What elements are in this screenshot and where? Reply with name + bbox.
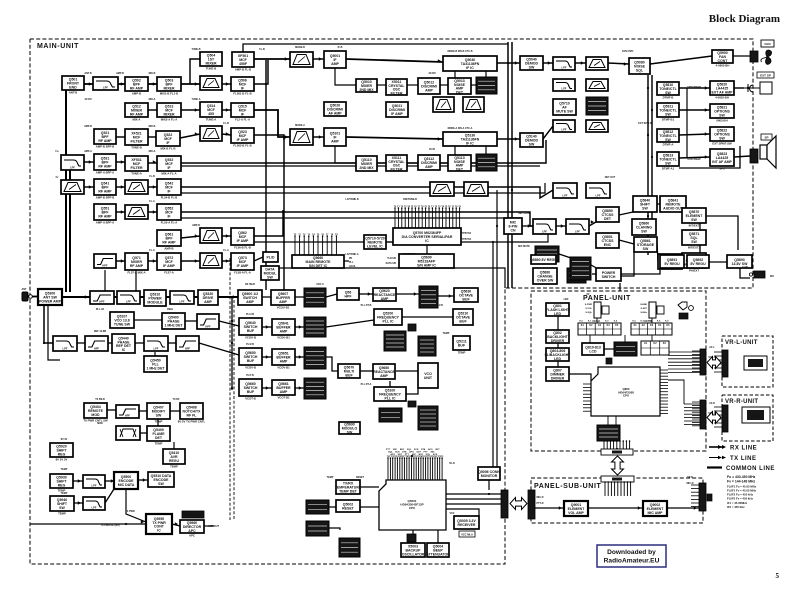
wire panelsub chain3 — [667, 507, 699, 509]
wire rowC 3 — [180, 134, 200, 138]
wire top route 2 — [284, 125, 460, 137]
svg-text:AMP: AMP — [381, 297, 389, 301]
svg-text:OVER SW: OVER SW — [537, 279, 554, 283]
svg-text:S-BND: S-BND — [640, 304, 647, 306]
wire rowC 4 — [222, 134, 231, 135]
wire ant row chain2 — [114, 296, 117, 298]
wire tx row4 — [140, 432, 147, 434]
svg-text:K-8: K-8 — [657, 321, 661, 323]
block s2 b2 — [386, 155, 407, 172]
svg-text:EXT SP/D-B: EXT SP/D-B — [638, 122, 652, 125]
svg-text:IF AMP: IF AMP — [163, 264, 175, 268]
small dark eeprom — [407, 534, 416, 542]
wire pll left row2 1 — [77, 342, 85, 344]
wire right col conn 2 — [679, 109, 710, 111]
svg-text:SW: SW — [719, 137, 725, 141]
filter bpf tx — [116, 426, 140, 440]
wire audio long to panel — [706, 216, 738, 250]
svg-text:FL-A: FL-A — [223, 249, 229, 252]
block 3p3 receiver — [454, 516, 479, 529]
block aux b — [50, 474, 73, 492]
svg-text:2ND MIX: 2ND MIX — [359, 166, 374, 170]
block octave r2 — [453, 309, 473, 325]
svg-text:LPF: LPF — [575, 230, 580, 234]
block rf row5a — [94, 179, 116, 199]
arrow panel to sub — [612, 456, 624, 475]
wire panel bus a2 — [668, 358, 700, 360]
block s2 trap1 — [430, 182, 454, 196]
svg-text:TUNE-B: TUNE-B — [206, 66, 217, 70]
block af2 a — [633, 196, 657, 212]
svg-text:MIC-D: MIC-D — [537, 496, 544, 499]
block RF AMP row2 — [125, 103, 148, 121]
wire mid long 5 — [278, 268, 505, 288]
svg-text:DTMF-B1: DTMF-B1 — [662, 117, 675, 121]
block pw4 — [727, 255, 752, 268]
block crystal filter top A — [232, 52, 254, 71]
wire right vert a — [647, 75, 649, 255]
svg-text:AF AMP: AF AMP — [328, 112, 342, 116]
wire rowB 2 — [181, 109, 200, 111]
svg-text:PLL: PLL — [349, 262, 354, 264]
svg-text:Fv = 144-148 MHz: Fv = 144-148 MHz — [727, 480, 755, 484]
svg-text:COMMON LINE: COMMON LINE — [726, 466, 775, 472]
block octave r1 — [454, 288, 478, 302]
connector comb right — [394, 205, 462, 228]
block diode mla — [180, 520, 204, 537]
svg-text:SQL: SQL — [426, 454, 431, 456]
svg-text:MIX-A: MIX-A — [149, 150, 156, 153]
svg-text:VCOV-B: VCOV-B — [245, 365, 256, 369]
svg-text:1 MHz DET: 1 MHz DET — [146, 367, 165, 371]
wire panel key stub 2 — [624, 335, 626, 342]
wire strip1 subs2 — [377, 84, 386, 86]
filter hpf tx — [116, 405, 139, 418]
vco dark c3 — [418, 406, 438, 430]
wire panelsub chain2 — [588, 507, 643, 509]
svg-text:BUF: BUF — [458, 343, 466, 347]
block vco buf r3a — [239, 348, 262, 369]
svg-text:4-0603-BH: 4-0603-BH — [716, 63, 730, 67]
filter lpf aux2 — [83, 497, 105, 510]
svg-text:INT AF AMP: INT AF AMP — [712, 160, 732, 164]
wire strip1 subs3 — [407, 84, 418, 86]
svg-text:MIC-D: MIC-D — [687, 482, 694, 485]
wire rowB 3 — [222, 109, 231, 111]
svg-text:AMP: AMP — [331, 140, 339, 144]
svg-text:PH/EXT: PH/EXT — [689, 268, 699, 272]
svg-text:LPF: LPF — [562, 128, 567, 132]
wire panel lcd lines — [604, 348, 614, 350]
dark s1 b5 — [476, 77, 497, 94]
panel small sq — [606, 358, 612, 364]
svg-text:FILTER: FILTER — [391, 168, 403, 172]
wire panel bus a3 — [668, 361, 700, 363]
VR-L-UNIT dashed border — [722, 336, 773, 387]
svg-text:DRIVER: DRIVER — [551, 377, 565, 381]
block 1st mixer top A — [200, 52, 222, 70]
wire panel left to cpu — [569, 374, 591, 381]
svg-text:PL/D: PL/D — [267, 255, 275, 259]
wire rowE 3 — [148, 186, 157, 188]
wire pw chain — [684, 261, 687, 263]
block s2 trap2 — [464, 182, 488, 196]
wire left bus vert b — [283, 137, 285, 290]
legend COMMON LINE — [707, 466, 775, 472]
ic S N det 2 wide — [399, 254, 454, 268]
svg-text:TUNE-A: TUNE-A — [206, 117, 217, 121]
svg-text:AF-R: AF-R — [709, 402, 715, 405]
arrow to VR-R — [707, 412, 721, 424]
svg-text:8V REGU: 8V REGU — [690, 262, 706, 266]
svg-text:T2: T2 — [303, 234, 306, 236]
svg-text:455: 455 — [208, 112, 214, 116]
svg-text:IF IC: IF IC — [466, 142, 474, 146]
DC IN connector — [749, 271, 775, 278]
wire rowH 4 — [222, 260, 231, 262]
svg-text:T5: T5 — [317, 234, 320, 236]
svg-text:SW: SW — [642, 207, 648, 211]
svg-text:PLL IC: PLL IC — [382, 320, 393, 324]
wire pll center 2 — [360, 370, 373, 372]
wire panel sw stub 1 — [596, 318, 598, 323]
svg-text:TUNE-A: TUNE-A — [191, 98, 200, 101]
svg-text:PTT-D: PTT-D — [537, 502, 544, 505]
svg-text:SW: SW — [267, 276, 273, 280]
wire mid vert d — [492, 242, 494, 467]
wire dashed control b — [233, 300, 235, 520]
block rf row4a — [94, 154, 116, 174]
wire mid long pair 2 — [181, 183, 545, 193]
block reset — [336, 500, 360, 512]
block BPF row2 — [157, 103, 181, 121]
svg-text:END: END — [69, 86, 77, 90]
svg-text:MIC DATA: MIC DATA — [118, 483, 135, 487]
filter LPF row4 — [61, 155, 84, 170]
svg-text:OSCILLATOR: OSCILLATOR — [402, 553, 425, 557]
svg-text:LPF: LPF — [92, 484, 97, 488]
panelsub comb — [604, 481, 631, 496]
svg-text:MODE-A DIS-A CTC-A: MODE-A DIS-A CTC-A — [448, 127, 473, 130]
block backup — [401, 543, 425, 557]
block panel lcd con — [545, 348, 572, 361]
svg-text:LPF: LPF — [126, 300, 131, 304]
wire ant row chain4 — [166, 296, 170, 298]
svg-text:MIX1-B FL1-B: MIX1-B FL1-B — [160, 91, 178, 95]
svg-text:PTT: PTT — [405, 454, 410, 456]
svg-text:VCC MLA: VCC MLA — [461, 533, 473, 537]
svg-text:44.545: 44.545 — [428, 72, 436, 75]
svg-text:1MHz: 1MHz — [167, 308, 174, 311]
filter lpf aux — [83, 475, 105, 488]
vr-r pot — [742, 407, 770, 423]
filter lpf rc5 — [553, 183, 577, 198]
svg-text:AMP-A BPF-A: AMP-A BPF-A — [96, 170, 114, 174]
block af3 a — [533, 268, 557, 284]
wire pll r1 3 — [326, 294, 337, 297]
svg-text:LO/TONE-B: LO/TONE-B — [345, 198, 358, 201]
wire pll left row2 2 — [108, 342, 112, 344]
block pllvco a — [110, 312, 134, 328]
panel key labels R — [632, 321, 669, 323]
svg-text:AMP-B: AMP-B — [84, 125, 92, 128]
panel right pins 1 — [692, 350, 700, 352]
block panelsub vol amp — [564, 501, 588, 516]
svg-text:EXT AF AMP: EXT AF AMP — [712, 91, 734, 95]
svg-text:LPF: LPF — [154, 347, 159, 351]
svg-text:LEVEL IC: LEVEL IC — [367, 245, 383, 249]
svg-text:LED: LED — [564, 298, 569, 301]
wire pll center 3 — [396, 370, 418, 372]
svg-text:Fv: Fv — [56, 176, 59, 179]
svg-text:RESET: RESET — [356, 476, 365, 479]
block pll 1mhz — [144, 356, 167, 372]
svg-text:MIX-A: MIX-A — [133, 117, 141, 121]
wire af mid 1 — [556, 225, 566, 227]
block rf row5c — [157, 179, 181, 199]
svg-text:IF AMP: IF AMP — [237, 138, 249, 142]
block reactance r1 — [373, 288, 396, 301]
svg-text:FILTER: FILTER — [391, 92, 403, 96]
svg-text:T7: T7 — [326, 234, 329, 236]
panel switch 1 — [594, 302, 609, 318]
svg-text:5C-D: 5C-D — [449, 462, 455, 465]
svg-text:T4: T4 — [312, 233, 315, 236]
wire panel bus c0 — [684, 403, 700, 405]
main cpu comb labels — [386, 448, 440, 456]
block TXRX SW — [144, 290, 166, 306]
panel RST box — [679, 313, 688, 319]
wire af mid 10 — [586, 262, 598, 269]
arrow main to panelsub — [510, 498, 527, 510]
wire strip2 a — [313, 136, 324, 138]
wire pll 1mhz — [154, 352, 156, 356]
svg-text:LPF: LPF — [92, 506, 97, 510]
downloaded-by box — [597, 545, 666, 567]
svg-text:MIXER: MIXER — [163, 113, 175, 117]
block s2 b4 — [448, 155, 471, 172]
svg-text:SW: SW — [691, 218, 697, 222]
vr-r pins — [714, 406, 722, 408]
wire rx vertical 1 — [62, 84, 66, 292]
block s1 b3 — [418, 78, 440, 94]
connector comb left — [294, 233, 339, 255]
dark q select — [306, 500, 329, 514]
block data sw — [632, 219, 656, 235]
svg-text:Downloaded by: Downloaded by — [607, 549, 656, 556]
svg-text:TUNE-B: TUNE-B — [191, 48, 200, 51]
wire strip2 d — [543, 126, 553, 139]
svg-text:Fu = 430-450 MHz: Fu = 430-450 MHz — [727, 475, 756, 479]
wire rowD 1 — [84, 161, 94, 163]
svg-text:IF-B: IF-B — [338, 46, 343, 49]
dark panel lcd driver — [614, 342, 637, 356]
svg-text:T0: T0 — [294, 234, 297, 236]
svg-text:LPF: LPF — [563, 194, 568, 198]
block attenuator — [426, 543, 450, 557]
panel cpu pins right — [660, 369, 668, 371]
svg-text:SW: SW — [529, 66, 535, 70]
wire aux row5 — [105, 489, 114, 503]
svg-text:MUTE SW: MUTE SW — [556, 110, 573, 114]
block buf small r2 — [453, 336, 470, 354]
svg-text:FL-B: FL-B — [223, 122, 229, 125]
svg-text:FL501-B FL-B: FL501-B FL-B — [233, 91, 251, 95]
wire pll r1 1 — [262, 296, 271, 298]
vco dark r2 — [304, 317, 326, 337]
svg-text:FAN CNTL: FAN CNTL — [622, 50, 634, 53]
wire vert left mid2 — [135, 270, 137, 291]
svg-text:EXT SPKR SW: EXT SPKR SW — [712, 141, 732, 145]
wire ant row chain5 — [194, 296, 198, 298]
wire long panel line — [619, 283, 621, 291]
svg-text:IC: IC — [157, 529, 161, 533]
block mid7b — [231, 228, 254, 249]
svg-text:SW: SW — [156, 414, 162, 418]
svg-text:TEMP: TEMP — [155, 441, 163, 445]
svg-text:VOL: VOL — [752, 414, 758, 418]
wire strip2 b — [346, 137, 443, 139]
svg-text:5V REGU: 5V REGU — [664, 262, 680, 266]
wire strip1 stub1 — [454, 71, 456, 78]
block audio col a4 — [657, 152, 679, 170]
filter HPF y336 e — [176, 336, 199, 351]
wire af mid 5 — [657, 203, 660, 205]
panel led cells — [641, 341, 669, 355]
svg-text:MONITOR: MONITOR — [481, 474, 498, 478]
svg-text:TUNE SW: TUNE SW — [114, 323, 131, 327]
svg-text:ANT-B: ANT-B — [84, 72, 92, 75]
ic decoder wide — [393, 228, 461, 245]
block tx chain b — [147, 403, 170, 423]
block ctcss1 — [596, 207, 619, 222]
wire pll r1 6 — [438, 295, 454, 297]
svg-text:VOL: VOL — [752, 362, 758, 366]
frequency table — [727, 475, 757, 509]
block rf row4b — [125, 156, 148, 175]
svg-text:SDT: SDT — [398, 454, 403, 456]
wire strip2 subs4 — [440, 162, 448, 164]
wire strip1 stub2 — [485, 71, 487, 77]
connector ANT — [22, 292, 32, 301]
svg-text:RF AMP: RF AMP — [130, 113, 144, 117]
svg-text:FL58-A FL-A: FL58-A FL-A — [234, 270, 251, 274]
filter lpf rc6 — [586, 183, 610, 198]
svg-text:S-VOL: S-VOL — [585, 308, 592, 310]
svg-text:SCK: SCK — [433, 454, 438, 456]
svg-text:S/N DET IC: S/N DET IC — [309, 264, 328, 268]
wire pll r1 5 — [396, 293, 419, 295]
block aux d — [50, 496, 74, 515]
svg-text:455F: 455F — [239, 62, 248, 66]
block DATA MODUL — [261, 266, 279, 280]
svg-text:PL/U-B: PL/U-B — [246, 313, 254, 316]
wire center vert pair a — [507, 42, 509, 288]
block RF AMP Fu — [125, 77, 148, 95]
svg-text:S/N AMP IC: S/N AMP IC — [417, 264, 436, 268]
wire pll r3 1 — [262, 356, 272, 358]
svg-text:TX LINE: TX LINE — [730, 456, 757, 462]
block s2 b1 — [356, 156, 377, 171]
wire pll left row2 4 — [168, 342, 176, 344]
svg-text:LO/TONE-A: LO/TONE-A — [345, 253, 358, 256]
wire cpu bottom2 — [437, 530, 439, 543]
svg-text:LPF: LPF — [562, 66, 567, 70]
block af2 b — [660, 196, 686, 212]
block tx chain d — [147, 426, 170, 445]
svg-text:POWER AMP: POWER AMP — [39, 300, 62, 304]
block s1 b4 — [448, 78, 471, 95]
wire center vert pair b — [511, 42, 513, 288]
phone jack symbol — [744, 82, 772, 94]
block panel b2 — [546, 330, 569, 343]
svg-text:SP-D: SP-D — [687, 476, 693, 479]
block rf row3b — [125, 129, 148, 149]
block af2 c — [634, 237, 657, 252]
vr-l connector bar — [722, 350, 728, 377]
svg-text:AMP: AMP — [380, 374, 388, 378]
svg-text:AMP-B BPF-B: AMP-B BPF-B — [96, 195, 115, 199]
filter HPF ant row — [90, 291, 114, 304]
svg-text:MIX-B: MIX-B — [149, 125, 156, 128]
svg-text:AMP: AMP — [425, 89, 433, 93]
svg-text:VCOT-B1: VCOT-B1 — [277, 395, 290, 399]
amp mid7 — [200, 228, 222, 243]
wire cpu right bus3 — [446, 503, 501, 505]
svg-text:MIC: MIC — [412, 454, 416, 456]
wire ant row chain — [62, 296, 90, 298]
wire pll left 3 — [219, 321, 239, 326]
block G1 RX RF unit — [62, 76, 84, 94]
wire rowD long — [181, 140, 546, 163]
svg-text:13.8V: 13.8V — [742, 266, 749, 269]
block pw3 — [687, 255, 709, 268]
svg-text:AUDIO OUT: AUDIO OUT — [663, 207, 684, 211]
wire dc feed — [740, 262, 752, 278]
svg-text:VCOU-B: VCOU-B — [245, 335, 256, 339]
wire pw chain2 — [709, 261, 727, 263]
svg-text:K-2: K-2 — [597, 321, 601, 323]
wire pll center 4 — [389, 381, 391, 387]
wire aux row2 — [105, 480, 114, 482]
wire cpu up — [411, 451, 413, 456]
wire rowH 2 — [148, 260, 157, 262]
block 13 8 regu — [163, 449, 185, 468]
wire pll left row2 5 — [199, 343, 239, 355]
panel key labels L — [579, 320, 618, 323]
block fan control — [712, 50, 733, 67]
block fl row3 — [231, 128, 254, 147]
wire mid vert c — [496, 190, 498, 480]
wire pll left 1 — [134, 319, 162, 321]
svg-text:RadioAmateur.EU: RadioAmateur.EU — [604, 558, 660, 565]
svg-text:MODE-B DIS-B CTC-B: MODE-B DIS-B CTC-B — [448, 50, 473, 53]
svg-text:SW: SW — [719, 114, 725, 118]
wire cpu right bus1 — [446, 493, 501, 495]
dark s2 b5 — [476, 154, 497, 171]
wire rowA 1 — [84, 83, 93, 85]
svg-text:RX LINE: RX LINE — [730, 446, 757, 452]
svg-text:SW: SW — [529, 143, 535, 147]
svg-text:45.05: 45.05 — [429, 148, 436, 151]
amp row3 — [200, 126, 222, 141]
svg-text:IF IC: IF IC — [466, 66, 474, 70]
wire strip1 stub3 — [465, 56, 467, 63]
panel bottom strip — [601, 449, 633, 455]
svg-text:RECEIVER: RECEIVER — [458, 523, 476, 527]
svg-text:S-PWR: S-PWR — [585, 304, 593, 306]
svg-text:MIC MUTE: MIC MUTE — [518, 245, 530, 248]
